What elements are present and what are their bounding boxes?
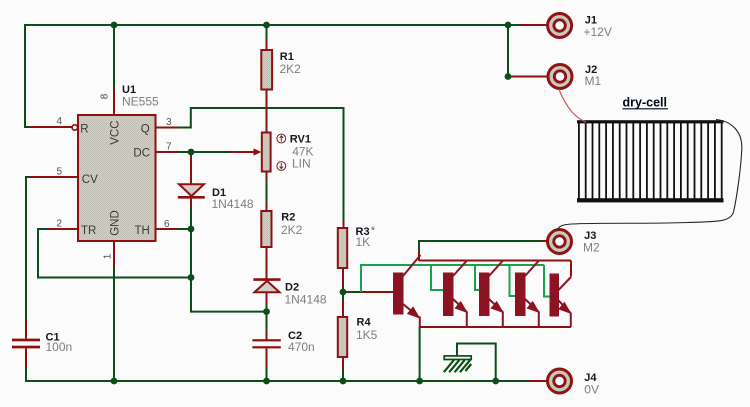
- capacitor C2: [252, 339, 280, 341]
- wire emitter rail drop to 0V: [419, 327, 421, 381]
- wire J2 net: [507, 25, 509, 77]
- transistor Q3: [480, 261, 503, 327]
- ground: [444, 356, 471, 360]
- junction R3 / R4 / base node: [340, 289, 347, 296]
- wire base drop Q3: [475, 265, 480, 290]
- connector J4: [548, 369, 572, 393]
- wire collector rail to J3: [419, 241, 541, 251]
- svg-text:R: R: [80, 124, 88, 136]
- svg-text:100n: 100n: [46, 340, 73, 354]
- svg-text:6: 6: [164, 219, 170, 230]
- wire DC pin 7 red stub: [156, 151, 179, 153]
- junction R1 top / +12V rail: [263, 22, 270, 29]
- RV1 circled up arrow: [277, 134, 286, 143]
- diode D2: [255, 281, 280, 292]
- wire RV1 wiper arrow: [229, 151, 254, 153]
- svg-text:R4: R4: [357, 317, 372, 329]
- wire Q to R3: [178, 108, 344, 221]
- wire TR pin 2 red stub: [48, 228, 78, 230]
- svg-text:0V: 0V: [584, 383, 599, 397]
- svg-text:*: *: [371, 226, 375, 237]
- wire pin 1 GND drop: [113, 241, 115, 268]
- wire C1 pin stubs: [25, 320, 27, 367]
- svg-text:TR: TR: [81, 225, 96, 237]
- wire Q pin 3 red stub: [156, 127, 179, 129]
- wire TH pin 6 red stub: [156, 228, 178, 230]
- svg-text:M1: M1: [585, 74, 602, 88]
- svg-text:2K2: 2K2: [280, 62, 302, 76]
- svg-text:2K2: 2K2: [281, 223, 303, 237]
- svg-text:1: 1: [103, 253, 114, 259]
- svg-text:1K5: 1K5: [356, 328, 378, 342]
- svg-text:DC: DC: [133, 148, 150, 160]
- wire pin 4 red stub: [29, 126, 72, 128]
- svg-text:1K: 1K: [356, 235, 371, 249]
- svg-text:Q: Q: [141, 124, 150, 136]
- svg-text:+12V: +12V: [584, 25, 612, 39]
- wire bottom rail: [25, 380, 529, 382]
- junction GND pin1 / 0V rail: [111, 378, 118, 385]
- resistor R2: [261, 211, 271, 247]
- wire base drop Q4: [510, 265, 516, 296]
- svg-text:R2: R2: [281, 212, 295, 224]
- junction TR pin2 loop: [188, 274, 195, 281]
- svg-text:8: 8: [100, 93, 111, 99]
- svg-text:5: 5: [57, 167, 63, 178]
- junction D2 anode / C2 top: [263, 308, 270, 315]
- wire CV pin 5 red stub: [29, 176, 78, 178]
- svg-text:VCC: VCC: [110, 120, 122, 144]
- svg-text:3: 3: [166, 117, 172, 128]
- connector J3: [548, 230, 572, 254]
- transistor Q4: [516, 261, 539, 327]
- pin R bubble: [72, 125, 77, 130]
- svg-text:TH: TH: [135, 225, 150, 237]
- capacitor C1: [12, 339, 40, 342]
- wire R3 R4 column: [342, 268, 344, 369]
- wire base Q1: [343, 291, 361, 293]
- battery dry-cell: [577, 120, 724, 202]
- wire R3 top red stub: [343, 221, 345, 229]
- svg-text:GND: GND: [110, 210, 122, 236]
- svg-text:LIN: LIN: [292, 156, 311, 170]
- wire TR loop: [38, 229, 188, 278]
- wire light green base rail: [361, 265, 544, 292]
- junction R4 bottom / 0V rail: [340, 378, 347, 385]
- resistor R4: [338, 317, 347, 357]
- wire base drop Q2: [431, 265, 444, 290]
- wire R1 column: [266, 25, 268, 381]
- wire CV to C1: [26, 177, 29, 320]
- junction DC pin7 / D1 anode: [188, 149, 195, 156]
- svg-text:1N4148: 1N4148: [285, 292, 327, 306]
- wire D1 column: [190, 152, 192, 208]
- junction J1 branch / +12V rail: [505, 22, 512, 29]
- wire ground net: [457, 344, 496, 382]
- diode D1: [179, 184, 204, 196]
- junction TH pin6 / D1 cathode: [188, 226, 195, 233]
- svg-text:2: 2: [57, 219, 63, 230]
- RV1 circled down arrow: [277, 162, 286, 171]
- junction VCC pin8 / +12V rail: [111, 22, 118, 29]
- transistor Q5: [550, 274, 571, 327]
- wire emitter rail: [420, 326, 571, 328]
- transistor Q2: [444, 261, 467, 327]
- wire collector rail: [419, 251, 571, 277]
- wire DC to RV1: [178, 151, 229, 153]
- potentiometer RV1: [262, 133, 271, 172]
- connector J2: [548, 65, 572, 89]
- junction ground branch / 0V rail: [492, 378, 499, 385]
- wire pin 8 VCC drop: [113, 25, 115, 88]
- resistor R3: [338, 228, 347, 268]
- wire battery to J3 (freehand): [558, 120, 742, 230]
- svg-text:1N4148: 1N4148: [212, 197, 254, 211]
- wire base drop Q5: [544, 265, 550, 297]
- svg-text:NE555: NE555: [122, 94, 159, 108]
- op-amp U1 body (NE555 IC): [78, 115, 156, 241]
- transistor Q1: [394, 255, 421, 327]
- junction emitter rail / 0V rail: [416, 378, 423, 385]
- resistor R1: [261, 50, 272, 90]
- junction C2 bottom / 0V rail: [263, 378, 270, 385]
- svg-text:dry-cell: dry-cell: [623, 96, 667, 110]
- wire C1 to bottom rail: [25, 367, 27, 381]
- svg-text:4: 4: [57, 116, 63, 127]
- svg-text:7: 7: [166, 142, 172, 153]
- wire top rail / left rail to pin 4: [25, 25, 509, 127]
- connector J1: [548, 14, 572, 38]
- svg-text:M2: M2: [583, 240, 600, 254]
- wire J1 stub: [508, 24, 519, 26]
- svg-text:CV: CV: [82, 174, 98, 186]
- wire J2 to battery (freehand): [559, 90, 586, 123]
- junction J2 branch: [505, 73, 512, 80]
- wire bottom rail red stub to J4: [529, 380, 548, 382]
- svg-text:470n: 470n: [288, 340, 315, 354]
